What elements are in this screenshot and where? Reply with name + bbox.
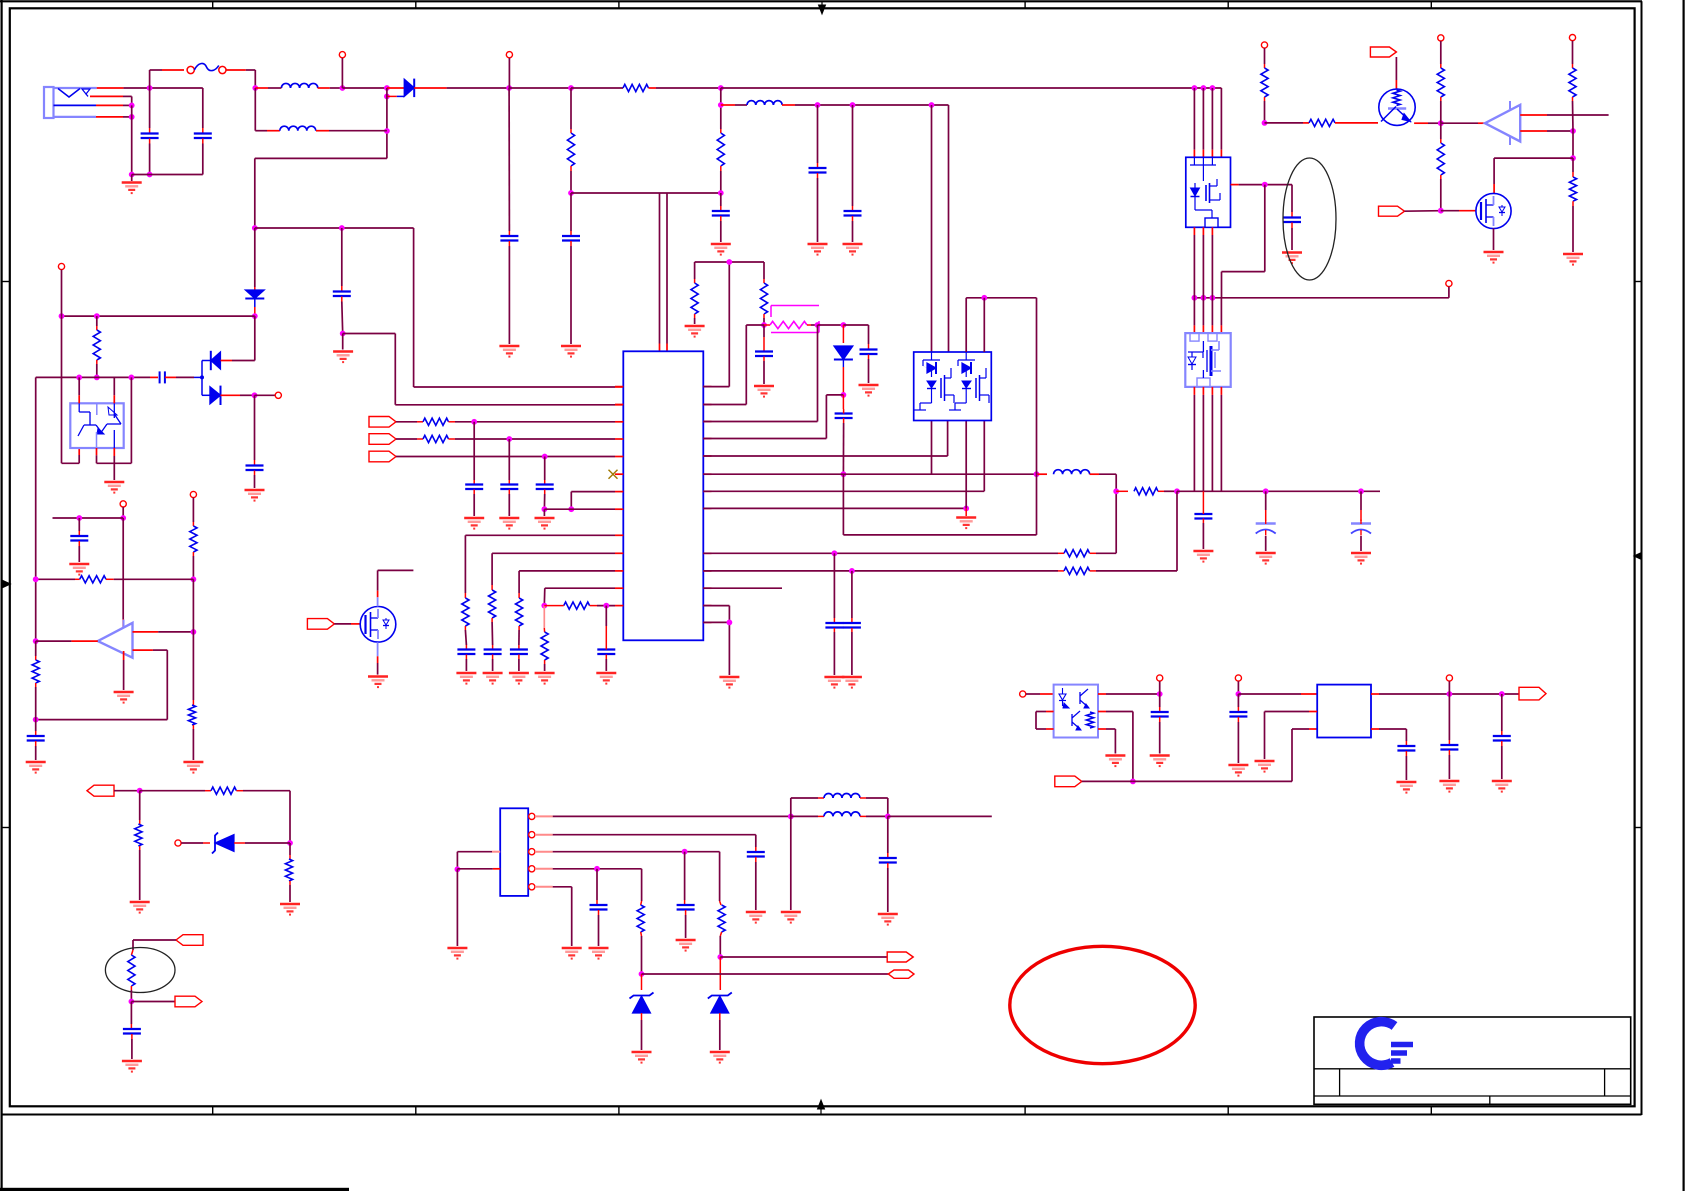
resistor R16 bbox=[135, 791, 142, 900]
ground C25 bbox=[1256, 553, 1276, 564]
resistor R6 bbox=[1437, 64, 1444, 123]
resistor R22 bbox=[516, 598, 523, 649]
wire opto return loop bbox=[62, 316, 80, 463]
capacitor C26 polarized bbox=[1351, 491, 1371, 551]
wire pack top bend bbox=[966, 295, 1036, 474]
capacitor C22 bbox=[843, 325, 877, 383]
wire opto2 out mid bbox=[1098, 712, 1136, 785]
ground C24 bbox=[1193, 551, 1213, 562]
wire Q3 drain bbox=[1494, 158, 1573, 193]
inductor L2 bbox=[255, 88, 387, 131]
wire reg out bbox=[1371, 691, 1519, 697]
wire opto emitter gnd bbox=[113, 448, 115, 480]
capacitor C13 bbox=[27, 720, 45, 760]
ground C15 bbox=[464, 518, 484, 529]
wire reg gnd bbox=[1265, 712, 1318, 760]
wire D1 anode return bbox=[252, 88, 390, 231]
wire left rail bbox=[33, 377, 39, 644]
diode D4 bbox=[202, 386, 275, 405]
resistor R5 bbox=[1265, 119, 1379, 126]
ground R25 bbox=[685, 326, 705, 337]
wire Q2 drain bbox=[377, 570, 379, 606]
terminal P7 bbox=[58, 263, 64, 316]
inductor L1 bbox=[255, 83, 345, 90]
wire Q2 source bbox=[377, 642, 379, 674]
ground Q2 bbox=[368, 677, 388, 688]
capacitor C27 bbox=[825, 553, 843, 675]
flag net label F10 bbox=[1519, 687, 1546, 700]
terminal P9 bbox=[120, 501, 126, 521]
resistor R3 bbox=[717, 88, 724, 196]
wire opto2 emitter bbox=[1098, 729, 1115, 754]
ground C22 bbox=[859, 385, 879, 396]
wire gnd bus jack bbox=[132, 174, 203, 176]
capacitor C18 bbox=[457, 650, 475, 672]
ground R8 bbox=[1563, 254, 1583, 265]
wire mid bus y298 bbox=[1192, 295, 1449, 301]
ground C37 bbox=[1396, 782, 1416, 793]
ground C3 bbox=[499, 346, 519, 357]
capacitor C22b bbox=[755, 325, 773, 384]
capacitor C30 bbox=[747, 847, 765, 910]
ground C5 bbox=[711, 244, 731, 255]
flag input FB bbox=[369, 434, 423, 445]
ground R23 bbox=[535, 673, 555, 684]
wire C9 to U3 pin2 bbox=[343, 334, 624, 405]
ground C34 bbox=[1228, 765, 1248, 776]
ground C4 bbox=[561, 346, 581, 357]
resistor R1 divider bbox=[567, 88, 574, 196]
ground reg bbox=[1255, 761, 1275, 772]
resistor R24 bbox=[544, 602, 615, 609]
ground Q3 bbox=[1484, 252, 1504, 263]
ground C14 bbox=[122, 1061, 142, 1072]
ground jack bbox=[122, 175, 142, 194]
capacitor C25 polarized bbox=[1256, 491, 1276, 551]
flag net label F8 bbox=[888, 970, 914, 978]
ground D7 bbox=[632, 1052, 652, 1063]
wires U5 top pins bbox=[1194, 88, 1221, 157]
opamp U1 bbox=[98, 620, 133, 658]
wire U5 right pin bbox=[1231, 182, 1293, 188]
ground C31 bbox=[676, 940, 696, 951]
ground C8 bbox=[1282, 253, 1302, 264]
wire net y974 bbox=[642, 973, 889, 975]
ground C36 bbox=[1492, 781, 1512, 792]
capacitor C1 bbox=[141, 88, 159, 177]
connector J1 DC power jack bbox=[44, 87, 97, 118]
capacitor C29 bbox=[879, 816, 897, 912]
regulator U4 bbox=[1317, 685, 1371, 738]
ellipse marker right bbox=[1283, 158, 1336, 280]
wire pin386 up bbox=[703, 262, 729, 387]
wire pin2 net bbox=[553, 835, 756, 847]
mosfet Q3 bbox=[1476, 193, 1511, 228]
diode pair node bbox=[201, 361, 203, 396]
wire CN2 left pins gnd bbox=[455, 852, 501, 946]
zener D5 bbox=[212, 833, 290, 854]
wire main rail right bbox=[721, 85, 1222, 150]
flag net label F7 bbox=[887, 952, 913, 962]
company logo bbox=[1360, 1022, 1413, 1066]
wire pin1 net bbox=[553, 814, 794, 820]
resistor R6b bbox=[1437, 123, 1444, 211]
wire U2 in+ bbox=[1520, 114, 1608, 116]
ground C16 bbox=[499, 518, 519, 529]
wire main rail bbox=[342, 85, 389, 91]
capacitor C14 bbox=[123, 1002, 141, 1060]
diode D3 bbox=[202, 316, 255, 370]
terminal P14 bbox=[1235, 675, 1241, 697]
wire Q-pack drain vert bbox=[931, 105, 933, 352]
wire U1 out bbox=[36, 640, 98, 642]
capacitor C36 bbox=[1493, 694, 1511, 779]
mosfet package U5 bbox=[1186, 157, 1231, 227]
ground pins 605 bbox=[719, 677, 739, 688]
capacitor C20 bbox=[510, 650, 528, 672]
resistor R30 bbox=[703, 491, 1177, 574]
no-connect pin U3 bbox=[609, 470, 624, 479]
ground pin508 bbox=[956, 508, 976, 528]
resistor R31 bbox=[717, 901, 725, 960]
terminal P12 bbox=[1020, 691, 1054, 697]
wire reg pin4 bbox=[1371, 729, 1406, 746]
capacitor C23 bbox=[835, 395, 853, 477]
capacitor C5 bbox=[712, 193, 730, 242]
wire pin5 net bbox=[553, 887, 572, 946]
transistor Q1 bbox=[1379, 89, 1444, 126]
wire L5 gnd bbox=[790, 816, 792, 910]
ground R13 bbox=[183, 762, 203, 773]
inductor L3 bbox=[721, 101, 949, 352]
ground C27 bbox=[824, 677, 844, 688]
optocoupler U7 bbox=[70, 403, 123, 448]
resistor R20 bbox=[462, 598, 469, 649]
flag net label top bbox=[1370, 47, 1396, 89]
ground C21 bbox=[596, 673, 616, 684]
wires U6 top pins bbox=[1194, 298, 1221, 333]
ground C26 bbox=[1351, 553, 1371, 564]
resistor R26 bbox=[760, 262, 767, 328]
thermistor RT1 bbox=[105, 948, 175, 1005]
ground C11 bbox=[245, 490, 265, 501]
junction node fuse left bbox=[147, 85, 153, 91]
wire U1 V- bbox=[123, 651, 125, 690]
wire stair row588 bbox=[541, 588, 615, 608]
resistor R12 bbox=[32, 641, 39, 720]
wire jack shield pins bbox=[90, 96, 135, 177]
capacitor C6 bbox=[809, 105, 827, 242]
title block bbox=[1314, 1017, 1631, 1104]
IC U3 main controller bbox=[615, 351, 712, 640]
flag net label F3 bbox=[87, 785, 143, 796]
ground C35 bbox=[1439, 781, 1459, 792]
ground R16 bbox=[130, 902, 150, 913]
resistor R25 bbox=[691, 262, 698, 324]
wire pin421 up bbox=[703, 322, 846, 421]
ground U1 bbox=[114, 692, 134, 703]
mosfet Q2 bbox=[360, 607, 396, 643]
wire vcc op bbox=[53, 515, 124, 521]
wire reg input bbox=[1238, 693, 1317, 695]
ground C33 bbox=[1150, 756, 1170, 767]
wire U1 in+ bbox=[133, 579, 197, 635]
zener D8 bbox=[708, 957, 732, 1050]
wire pin4 net bbox=[553, 866, 642, 901]
flag net label F4 bbox=[133, 935, 203, 950]
terminal P1 bbox=[339, 52, 345, 88]
resistor R19 bbox=[423, 435, 615, 442]
terminal P6 bbox=[1569, 35, 1575, 65]
ground C22b bbox=[754, 386, 774, 397]
ground C28 bbox=[842, 677, 862, 688]
wire opto pin tops bbox=[79, 377, 114, 403]
flag net label F5 bbox=[131, 996, 202, 1007]
wire U5 source bend bbox=[1222, 185, 1265, 298]
red stamp ellipse bbox=[1010, 946, 1195, 1063]
mosfet package U8 bbox=[914, 352, 992, 421]
mosfet package U6 bbox=[1185, 333, 1230, 387]
ground C9 bbox=[333, 352, 353, 363]
ground CN2 bbox=[447, 948, 467, 959]
capacitor C10 series bbox=[160, 371, 204, 383]
ground C7 bbox=[843, 244, 863, 255]
wire U3 pin row 509 bbox=[544, 508, 615, 510]
terminal P4 bbox=[1261, 42, 1267, 64]
ground C12 bbox=[69, 564, 89, 575]
wire U3 pin row 491 bbox=[568, 492, 615, 513]
wire pin508 to pack bbox=[703, 421, 969, 512]
capacitor C11 bbox=[246, 395, 264, 488]
ground L5 bbox=[781, 912, 801, 923]
ground C20 bbox=[509, 673, 529, 684]
resistor R7 bbox=[1569, 64, 1576, 131]
capacitor C31 bbox=[677, 852, 695, 938]
wire opto2 cathode loop bbox=[1036, 712, 1054, 730]
resistor R14 Q2 drain stub bbox=[378, 569, 414, 571]
diode D2 bbox=[245, 228, 264, 319]
optocoupler U9 bbox=[1054, 685, 1098, 738]
capacitor C12 bbox=[70, 518, 88, 562]
resistor R29 bbox=[703, 550, 1116, 557]
wire pins 605 622 gnd bbox=[703, 606, 732, 675]
ground C32 bbox=[589, 948, 609, 959]
flag input FC bbox=[369, 451, 615, 462]
capacitor C21 bbox=[597, 606, 615, 671]
ground C6 bbox=[808, 244, 828, 255]
flag input FA bbox=[369, 417, 423, 428]
resistor R4 bbox=[1261, 64, 1268, 126]
capacitor C8 in ellipse bbox=[1283, 185, 1301, 250]
ground R17 bbox=[280, 904, 300, 915]
terminal P5 bbox=[1438, 35, 1444, 64]
resistor R28 bbox=[1116, 488, 1180, 495]
ground opto bbox=[104, 482, 124, 493]
capacitor C2 bbox=[194, 88, 212, 175]
wire U-loop bbox=[843, 474, 1036, 535]
wire y262 bus bbox=[695, 259, 764, 265]
wire pin438 up bbox=[703, 395, 843, 439]
zener D7 bbox=[630, 974, 654, 1050]
terminal P15 bbox=[1446, 675, 1452, 694]
wire node y316 bbox=[59, 313, 255, 319]
capacitor C35 bbox=[1440, 694, 1458, 779]
wire opto2 out top bbox=[1098, 691, 1163, 697]
resistor R10 bbox=[190, 522, 197, 582]
capacitor C34 bbox=[1229, 694, 1247, 763]
wire U3 top pins bbox=[660, 193, 668, 351]
terminal P11 bbox=[175, 840, 210, 846]
terminal P13 bbox=[1157, 675, 1163, 694]
resistor R32 bbox=[637, 901, 644, 977]
inductor L4 bbox=[1038, 470, 1120, 554]
ground C30 bbox=[746, 912, 766, 923]
ground opto2 bbox=[1105, 756, 1125, 767]
capacitor C37 bbox=[1397, 746, 1415, 780]
diode D6 bbox=[834, 325, 853, 398]
wire enable net bbox=[1133, 729, 1317, 781]
capacitor C32 bbox=[590, 869, 608, 946]
resistor R15 bbox=[140, 787, 293, 846]
ground C18 bbox=[456, 673, 476, 684]
ground C13 bbox=[26, 762, 46, 773]
resistor R8 bbox=[1569, 131, 1576, 252]
capacitor C17 bbox=[536, 457, 554, 517]
capacitor C3 bbox=[500, 88, 518, 344]
capacitor C28 bbox=[843, 571, 861, 675]
opamp U2 bbox=[1441, 101, 1520, 145]
fuse F1 bbox=[150, 64, 259, 91]
capacitor C19 bbox=[484, 650, 502, 672]
ground D8 bbox=[710, 1052, 730, 1063]
resistor R18 bbox=[423, 418, 615, 425]
resistor R9 bbox=[93, 316, 100, 380]
ground C17 bbox=[535, 518, 555, 529]
wire pin491 to pack bbox=[703, 421, 984, 492]
flag net label F9 bbox=[1055, 776, 1133, 787]
capacitor C9 bbox=[333, 228, 351, 336]
diode D1 bbox=[384, 79, 512, 100]
wire stair to U3 pin1 bbox=[255, 225, 624, 387]
resistor R27 pink jumper bbox=[764, 306, 820, 333]
wires U6 bottom pins bbox=[1194, 387, 1221, 491]
wires U5 bottom pins bbox=[1194, 227, 1212, 297]
wire stair row535 bbox=[465, 535, 615, 598]
resistor R21 bbox=[489, 590, 496, 649]
wire Q3 source bbox=[1493, 228, 1495, 250]
inductor L6 bbox=[791, 812, 992, 819]
wire pin3 net bbox=[553, 849, 720, 901]
wire pin456 to pack bbox=[703, 421, 947, 457]
wire rail to R1 bbox=[509, 85, 574, 91]
wire U2 in- bbox=[1520, 128, 1576, 134]
wire opto base loop bbox=[97, 377, 132, 463]
capacitor C4 bbox=[562, 193, 580, 344]
capacitor C16 bbox=[500, 439, 518, 516]
ground pin5 bbox=[562, 948, 582, 959]
wire pin404 up bbox=[703, 325, 764, 405]
terminal P2 bbox=[506, 52, 512, 88]
capacitor C33 bbox=[1151, 694, 1169, 754]
resistor R2 bbox=[571, 84, 724, 91]
wire net y957 bbox=[720, 956, 888, 958]
capacitor C15 bbox=[465, 422, 483, 516]
capacitor C7 bbox=[844, 105, 862, 242]
wire opamp V+ bbox=[122, 518, 124, 627]
wire y491 bus bbox=[1177, 488, 1380, 494]
resistor R17 bbox=[285, 843, 292, 902]
wire jack pin1 to node bbox=[97, 87, 203, 89]
resistor R11 bbox=[36, 576, 194, 583]
terminal P10 bbox=[190, 491, 196, 522]
terminal P8 bbox=[275, 392, 281, 398]
wire node y377 bbox=[36, 375, 158, 381]
terminal P3 bbox=[1446, 280, 1452, 297]
flag net Q2 gate bbox=[307, 619, 360, 630]
wire stair row553 bbox=[492, 553, 615, 590]
wire stair row571 bbox=[519, 571, 615, 598]
connector CN2 bbox=[500, 808, 553, 896]
wire VCC branch y193 bbox=[571, 192, 721, 194]
flag net label gate bbox=[1379, 206, 1478, 216]
resistor R23 bbox=[541, 606, 548, 671]
capacitor C24 bbox=[1194, 491, 1212, 549]
wire pin474 bus bbox=[703, 421, 1039, 478]
ground C29 bbox=[878, 914, 898, 925]
inductor L5 bbox=[791, 794, 888, 817]
resistor R13 bbox=[188, 632, 195, 760]
ground C19 bbox=[483, 673, 503, 684]
wire pin588 stub bbox=[703, 587, 782, 589]
wire U1 in- feedback bbox=[33, 650, 168, 722]
